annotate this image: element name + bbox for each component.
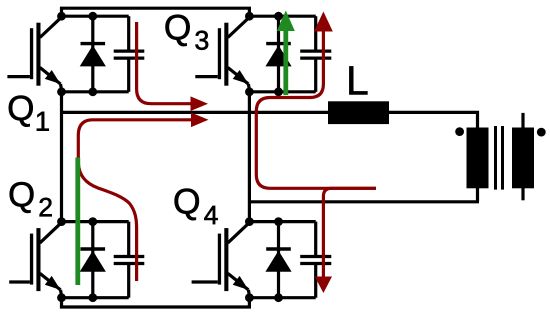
node D3 anode junction <box>274 87 283 96</box>
node D1 anode junction <box>88 87 97 96</box>
label L <box>349 66 367 94</box>
wire: Q1 cell top bus <box>62 15 129 18</box>
node Q2 collector junction <box>57 217 66 226</box>
wire: bottom DC bus rail <box>62 297 250 307</box>
label Q4 <box>175 189 199 221</box>
diode D4 anti-parallel <box>277 222 280 298</box>
wire: red current path around right leg up through C3 <box>256 30 376 188</box>
diode D2 anti-parallel <box>91 222 94 298</box>
capacitor C1 snubber <box>127 16 130 50</box>
label Q3 <box>166 15 190 46</box>
wire: inductor to transformer primary <box>387 111 479 114</box>
transistor Q4 IGBT <box>224 228 228 291</box>
transistor Q2 IGBT <box>36 228 40 291</box>
transformer T1 primary winding <box>467 128 489 189</box>
wire: red current path through C1 to upper output arrow <box>137 22 191 104</box>
node primary polarity dot <box>455 127 464 136</box>
node Q1 emitter junction <box>57 87 66 96</box>
wire: Q3 cell top bus <box>249 15 315 18</box>
node Q4 emitter junction <box>245 293 254 302</box>
capacitor C2 snubber <box>127 222 130 256</box>
wire: red current path down through C4 <box>323 188 376 277</box>
label Q2 <box>10 182 34 213</box>
node D3 cathode junction <box>274 12 283 21</box>
wire: Q4 cell top bus <box>249 220 315 223</box>
wire: left leg Q1-Q2 midpoint <box>60 90 63 223</box>
wire: secondary bottom lead <box>521 188 524 200</box>
wire: green conduction path in left leg <box>75 158 80 286</box>
node D2 cathode junction <box>88 217 97 226</box>
wire: red current path from C2 via left leg to lower output arrow <box>78 120 191 281</box>
node Q4 collector junction <box>245 217 254 226</box>
wire: Q4 cell bottom bus <box>249 296 315 299</box>
wire: top DC bus rail <box>62 8 250 17</box>
node secondary polarity dot <box>537 128 546 137</box>
wire: return wire transformer to right-leg midpoint <box>249 200 479 203</box>
transformer T1 secondary winding <box>512 128 534 189</box>
wire: right leg Q3-Q4 midpoint <box>248 90 251 223</box>
transformer T1 core <box>494 126 497 190</box>
node D4 cathode junction <box>274 217 283 226</box>
label Q1 <box>9 96 33 127</box>
node Q1 collector junction <box>57 12 66 21</box>
transistor Q1 IGBT <box>36 23 40 86</box>
wire: secondary top lead <box>521 113 524 128</box>
diode D3 anti-parallel <box>277 16 280 92</box>
wire: green conduction path through D3 <box>283 29 288 95</box>
wire: left-leg midpoint to inductor <box>62 111 331 114</box>
wire: Q2 cell top bus <box>62 220 129 223</box>
node Q3 collector junction <box>245 12 254 21</box>
capacitor C4 snubber <box>314 222 317 256</box>
diode D1 anti-parallel <box>91 16 94 92</box>
wire: Q2 cell bottom bus <box>62 296 129 299</box>
wire: Q1 cell bottom bus <box>62 90 129 93</box>
node Q2 emitter junction <box>57 293 66 302</box>
transistor Q3 IGBT <box>224 23 228 86</box>
inductor L <box>328 101 389 124</box>
node D4 anode junction <box>274 293 283 302</box>
node D1 cathode junction <box>88 12 97 21</box>
capacitor C3 snubber <box>314 16 317 50</box>
wire: Q3 cell bottom bus <box>249 90 315 93</box>
wire: transformer primary lead <box>476 111 479 202</box>
node D2 anode junction <box>88 293 97 302</box>
node Q3 emitter junction <box>245 87 254 96</box>
